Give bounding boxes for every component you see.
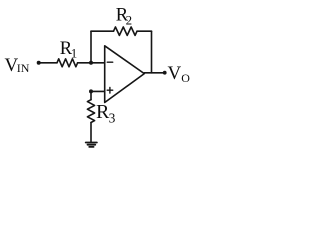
svg-text:2: 2 [126,13,133,28]
node: junction of R1, feedback branch and inverting input [89,61,93,65]
wire: feedback top rail right segment [137,30,152,32]
node: V_IN input terminal [37,61,41,65]
svg-text:1: 1 [71,46,78,61]
op-amp U1 non-inverting input (+) sign [107,87,113,93]
wire: R3 bottom lead to ground [90,123,92,143]
resistor R2 [114,27,138,35]
wire: op-amp output to V_O terminal [144,72,164,74]
svg-text:IN: IN [17,61,30,75]
resistor R1 [57,59,78,67]
wire: feedback right vertical segment to output [151,31,153,73]
resistor R3 [87,100,94,123]
op-amp U1 inverting input (-) sign [107,61,112,63]
svg-text:3: 3 [109,111,116,126]
node: junction of non-inverting input and R3 [89,89,93,93]
node: V_O output terminal [163,71,167,75]
svg-text:O: O [181,71,190,85]
svg-text:V: V [168,63,182,84]
ground symbol [86,143,97,147]
wire: R3 top lead [90,91,92,99]
wire: V_IN terminal to R1 left lead [39,62,57,64]
wire: R1 right lead to op-amp inverting input [78,62,105,64]
wire: feedback top rail left segment [91,30,114,32]
wire: non-inverting input to R3 top node [91,90,105,92]
op-amp U1 triangle body [105,46,145,103]
wire: feedback left vertical segment [90,31,92,63]
